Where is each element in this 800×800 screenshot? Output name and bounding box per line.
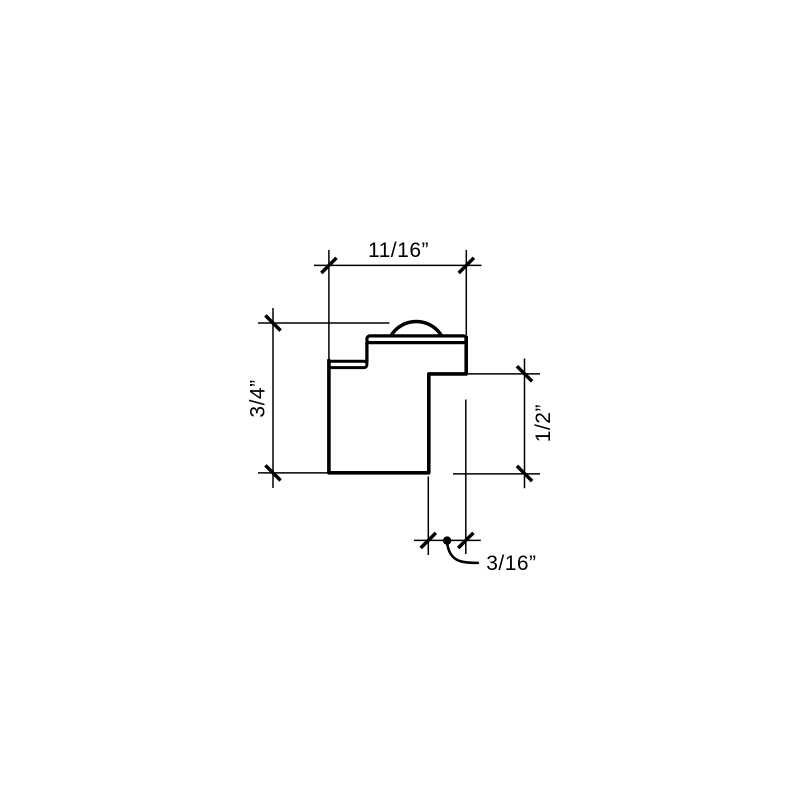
dim 11/16 extension line left — [328, 250, 330, 360]
dim 3/16 extension line left — [427, 476, 429, 555]
dim 1/2 tick top — [517, 366, 532, 381]
dim 3/16 tick right — [458, 533, 473, 548]
dim 1/2 extension line top — [467, 373, 541, 375]
dim 11/16 dimension line — [314, 264, 482, 266]
dim 3/16 tick left — [421, 533, 436, 548]
dim 3/16 leader curve — [447, 542, 478, 563]
profile step riser — [365, 343, 368, 363]
dim 11/16 tick left — [321, 258, 336, 273]
dim 3/4 dimension line — [272, 308, 274, 488]
svg-text:11/16”: 11/16” — [368, 239, 429, 262]
dim 11/16 extension line right — [465, 250, 467, 335]
dim 1/2 dimension line — [524, 359, 526, 489]
dim 1/2 extension line bottom — [453, 473, 540, 475]
dim 3/4 extension line top — [258, 322, 390, 324]
dim 11/16 tick right — [459, 258, 474, 273]
profile body outline — [329, 337, 466, 473]
dim 3/16 dimension line — [414, 539, 481, 541]
svg-text:1/2”: 1/2” — [532, 404, 555, 442]
profile back step lip — [329, 361, 367, 367]
svg-text:3/4”: 3/4” — [247, 379, 270, 417]
profile dome arc — [391, 322, 441, 336]
profile top cap — [367, 336, 466, 343]
dim 3/4 extension line bottom — [258, 472, 331, 474]
dim 3/16 extension line right — [465, 400, 467, 555]
dim 3/4 tick top — [265, 315, 280, 330]
dim 1/2 tick bottom — [517, 466, 532, 481]
svg-text:3/16”: 3/16” — [486, 552, 536, 575]
dim 3/4 tick bottom — [265, 465, 280, 480]
dim 3/16 leader dot — [443, 536, 451, 544]
